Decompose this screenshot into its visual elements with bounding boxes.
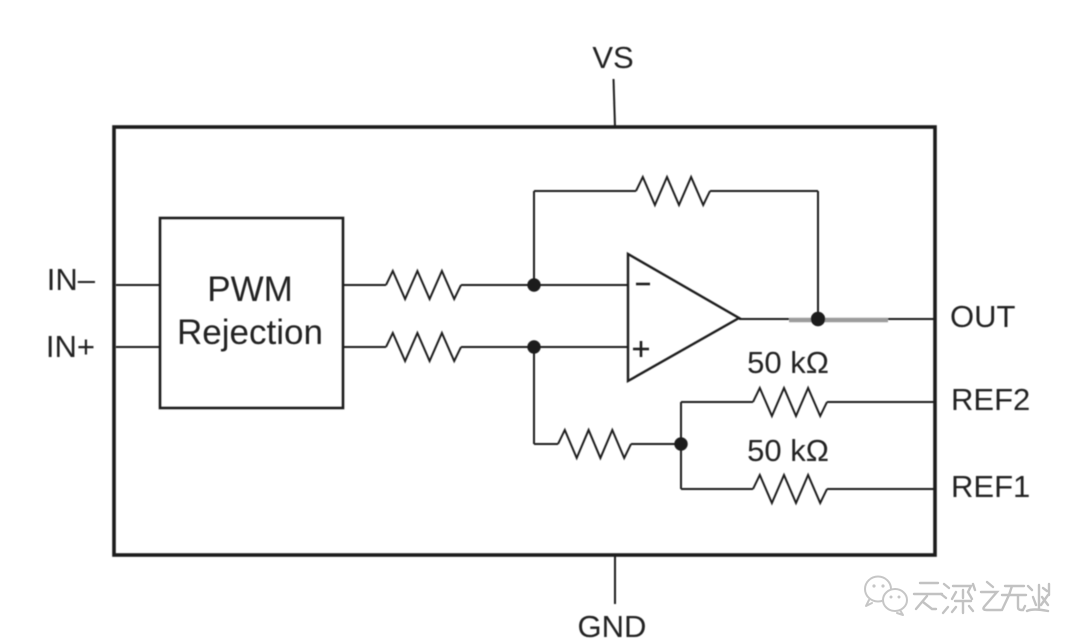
zhi bbox=[981, 582, 1001, 610]
yun bbox=[914, 583, 942, 609]
op-amp U1 bbox=[628, 254, 739, 381]
svg-text:PWM: PWM bbox=[207, 270, 293, 309]
node C junction dot bbox=[674, 437, 687, 450]
watermark wechat logo bbox=[865, 577, 907, 616]
VS pin lead wire bbox=[614, 79, 616, 127]
svg-text:GND: GND bbox=[578, 609, 647, 643]
feedback wire down to output node bbox=[817, 191, 819, 319]
shen bbox=[941, 584, 975, 613]
feedback wire up from node A bbox=[533, 191, 535, 285]
IN+ wire into PWM block bbox=[116, 346, 160, 348]
feedback resistor RF bbox=[636, 177, 710, 205]
op-amp minus sign bbox=[636, 283, 650, 286]
wire PWM to resistor R1 bbox=[343, 284, 386, 286]
svg-text:REF1: REF1 bbox=[951, 469, 1030, 504]
output node junction dot bbox=[811, 312, 825, 326]
PWM Rejection block bbox=[160, 218, 343, 408]
gray highlighted output segment bbox=[789, 318, 888, 323]
svg-text:IN–: IN– bbox=[47, 262, 96, 297]
wire R2 to op-amp non-inverting input bbox=[461, 346, 628, 348]
svg-text:VS: VS bbox=[592, 40, 633, 75]
node A junction dot (inverting) bbox=[527, 278, 540, 291]
wire R4 to REF2 pin bbox=[827, 401, 935, 403]
svg-text:REF2: REF2 bbox=[951, 382, 1030, 417]
wire R5 to REF1 pin bbox=[827, 488, 935, 490]
svg-text:Rejection: Rejection bbox=[177, 313, 323, 352]
svg-text:50 kΩ: 50 kΩ bbox=[747, 345, 829, 380]
feedback wire top-right segment bbox=[710, 190, 818, 192]
IC boundary box bbox=[114, 127, 935, 555]
ji bbox=[1027, 584, 1049, 611]
wire R3 to node C bbox=[631, 443, 681, 445]
svg-text:50 kΩ: 50 kΩ bbox=[747, 433, 829, 468]
GND pin lead wire bbox=[614, 555, 616, 604]
resistor R3 (reference divider) bbox=[558, 430, 631, 458]
svg-text:IN+: IN+ bbox=[46, 329, 95, 364]
watermark text yun shen zhi wu ji bbox=[914, 582, 1049, 613]
wire node C to resistor R4 bbox=[681, 401, 753, 403]
op-amp plus sign bbox=[633, 341, 649, 357]
output wire bbox=[739, 318, 935, 320]
wire PWM to resistor R2 bbox=[343, 346, 386, 348]
resistor R1 (inverting input) bbox=[386, 271, 461, 299]
node B junction dot (non-inverting) bbox=[527, 340, 540, 353]
vertical wire joining REF rows bbox=[680, 402, 682, 489]
wire down from node B bbox=[533, 347, 535, 444]
resistor R2 (non-inverting input) bbox=[386, 333, 461, 361]
wire node C to resistor R5 bbox=[681, 488, 753, 490]
wire to resistor R3 bbox=[534, 443, 558, 445]
svg-text:OUT: OUT bbox=[950, 299, 1016, 334]
wire R1 to op-amp inverting input bbox=[461, 284, 628, 286]
resistor R4 (50 kOhm to REF2) bbox=[753, 388, 827, 416]
resistor R5 (50 kOhm to REF1) bbox=[753, 475, 827, 503]
IN- wire into PWM block bbox=[116, 284, 160, 286]
feedback wire top-left segment bbox=[534, 190, 636, 192]
wu bbox=[1002, 586, 1026, 610]
